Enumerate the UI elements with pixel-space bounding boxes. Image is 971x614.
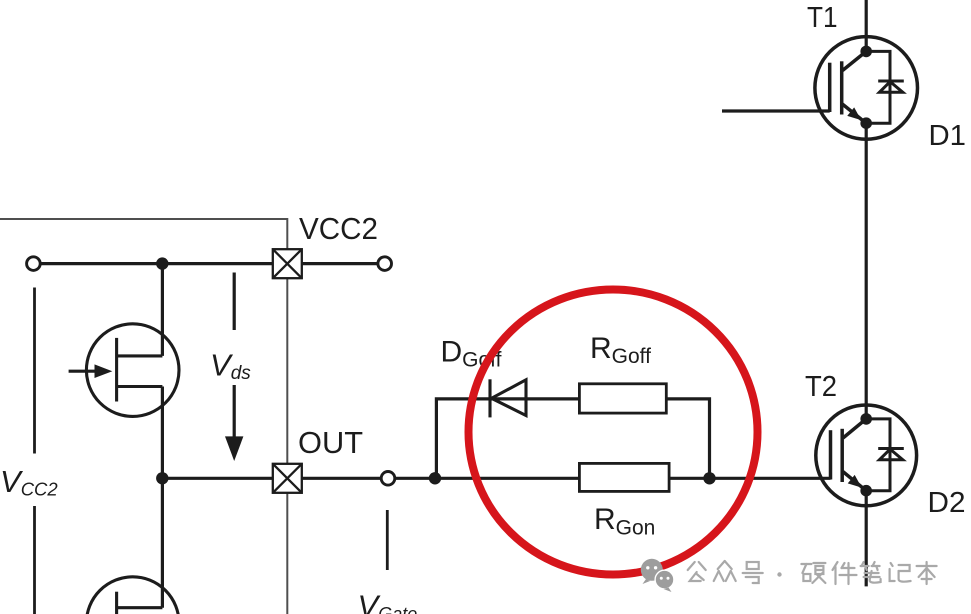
wire: anode side of D_Goff to R_Goff — [490, 397, 579, 400]
watermark text: 公众号 · 硬件笔记本 (hand-drawn strokes) — [688, 561, 937, 584]
wire: M1 drain — [161, 264, 164, 356]
wire: T1 emitter to T2 collector — [865, 123, 868, 419]
resistor R_Gon — [579, 463, 669, 491]
node: T1 emitter — [860, 117, 872, 129]
diode D2 (antiparallel) — [866, 419, 904, 491]
wire: VCC2 rail — [40, 262, 273, 265]
char 件 — [833, 562, 857, 584]
resistor R_Goff — [579, 384, 666, 413]
wire: M2 drain from OUT node — [161, 478, 164, 607]
svg-text:D1: D1 — [929, 120, 967, 152]
wire: M1 source to OUT node — [161, 387, 164, 479]
char 本 — [917, 562, 937, 584]
svg-text:D2: D2 — [928, 487, 966, 519]
pin OUT (crossed box) — [273, 464, 302, 493]
transistor T1 (IGBT) — [815, 37, 918, 140]
arrow: T1 emitter — [847, 107, 864, 124]
separator dot — [777, 572, 781, 576]
node: T1 collector — [860, 46, 872, 58]
node: gate network left — [429, 472, 441, 484]
wire: DC bus to T1 collector — [865, 0, 868, 51]
node: T2 emitter — [860, 485, 872, 497]
node: VCC2 rail junction — [156, 257, 168, 269]
svg-text:OUT: OUT — [298, 425, 363, 460]
pin VCC2 (crossed box) — [273, 249, 302, 278]
svg-text:VCC2: VCC2 — [299, 211, 378, 246]
diode D_Goff — [490, 379, 526, 417]
node: OUT junction — [156, 472, 168, 484]
node: gate network right — [703, 472, 715, 484]
wire: T2 emitter lead — [865, 491, 868, 587]
svg-text:T2: T2 — [805, 371, 837, 403]
node: T2 collector — [860, 413, 872, 425]
terminal: VCC2 rail left — [27, 257, 41, 271]
svg-text:T1: T1 — [807, 2, 838, 34]
wire: driver IC outline between VCC2 and OUT pins (grey) — [286, 278, 288, 464]
char 硬 — [801, 563, 825, 583]
arrow: T2 emitter — [848, 475, 865, 492]
terminal: VCC2 rail right — [378, 257, 392, 271]
char 众 — [714, 561, 736, 581]
terminal: OUT — [381, 472, 395, 486]
measurement line V_Gate — [386, 510, 389, 570]
arrow: M1 gate — [95, 364, 113, 378]
diode D1 (antiparallel) — [866, 51, 904, 123]
wire: driver IC outline below OUT pin (grey) — [286, 493, 288, 614]
transistor M1 (high-side output FET) — [69, 324, 179, 417]
transistor M2 (low-side output FET, partially visible) — [86, 577, 179, 614]
transistor T2 (IGBT) — [816, 405, 917, 506]
measurement line V_CC2 — [33, 288, 36, 454]
watermark logo (chat bubbles) — [641, 559, 674, 592]
char 笔 — [861, 562, 881, 583]
wire: turn-off branch — [436, 399, 488, 478]
char 记 — [890, 563, 911, 582]
char 公 — [688, 562, 706, 581]
measurement arrow V_ds — [233, 273, 236, 331]
char 号 — [743, 562, 763, 583]
wire: OUT rail (pin to circuit) — [162, 477, 273, 480]
wire: gate drive line OUT terminal to T2 gate — [395, 477, 831, 480]
wire: driver IC outline top (grey) — [0, 219, 287, 249]
wire: T1 gate lead — [722, 109, 830, 112]
wire: R_Goff to gate line — [666, 399, 709, 478]
red highlight circle — [469, 290, 758, 575]
